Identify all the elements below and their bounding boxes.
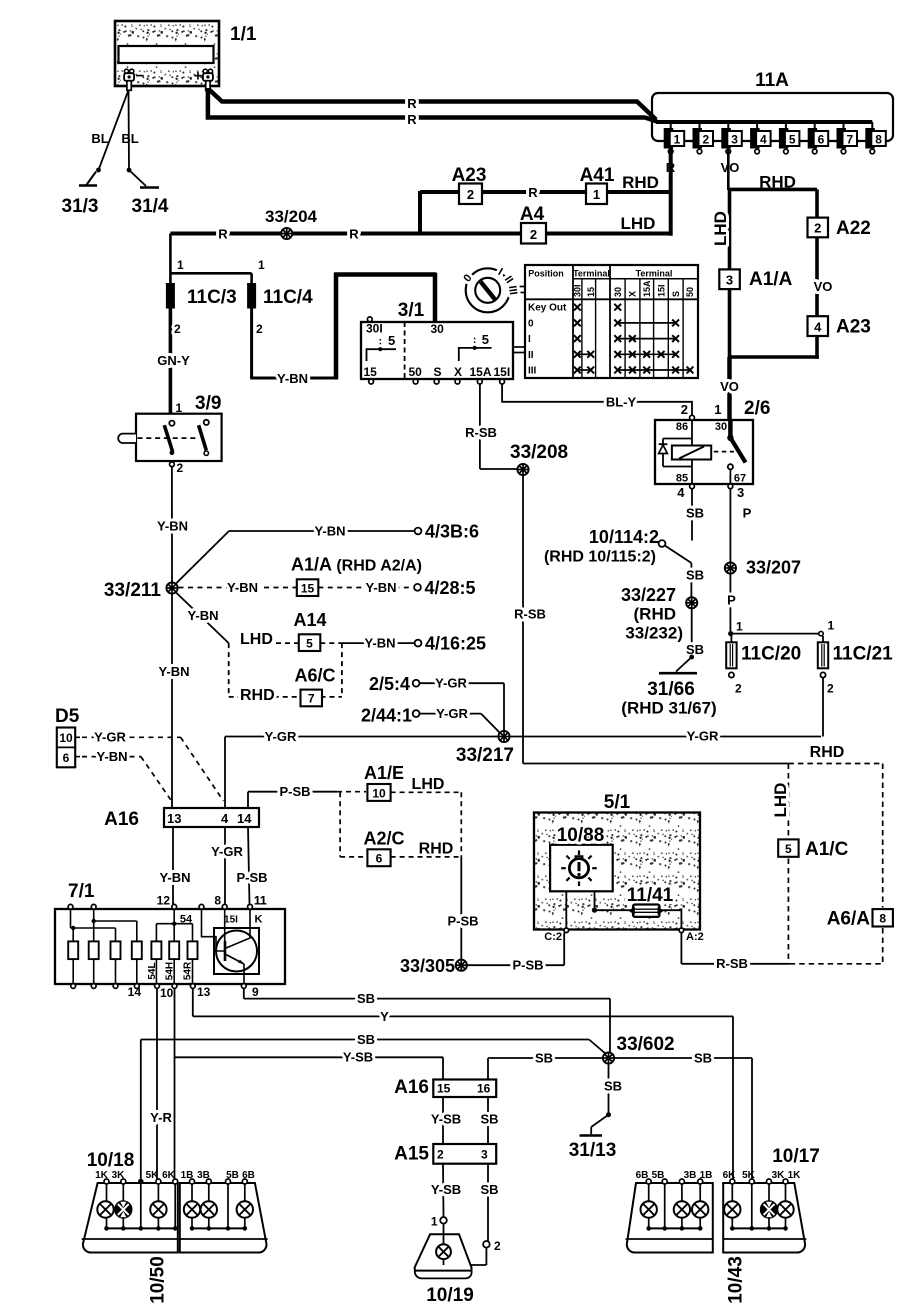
svg-text:4: 4 — [814, 320, 822, 335]
svg-text:Y-BN: Y-BN — [159, 870, 190, 885]
svg-text:A41: A41 — [580, 165, 615, 186]
svg-text:10/50: 10/50 — [148, 1256, 169, 1304]
svg-text:3/9: 3/9 — [195, 393, 221, 414]
svg-text:15I: 15I — [656, 284, 666, 297]
svg-text:10/88: 10/88 — [557, 825, 605, 846]
svg-text:SB: SB — [686, 506, 704, 521]
svg-text:Y-GR: Y-GR — [687, 729, 719, 744]
svg-text:A1/E: A1/E — [364, 763, 404, 783]
svg-text:2: 2 — [827, 682, 834, 696]
svg-text:SB: SB — [357, 991, 375, 1006]
svg-text:6K: 6K — [723, 1170, 737, 1181]
svg-text:11: 11 — [254, 894, 267, 908]
svg-text:S: S — [434, 365, 442, 379]
svg-text:8: 8 — [879, 912, 886, 926]
svg-text:Y-BN: Y-BN — [314, 524, 345, 539]
svg-text:3: 3 — [731, 133, 738, 147]
svg-text:SB: SB — [604, 1079, 622, 1094]
svg-text:3: 3 — [726, 273, 733, 288]
svg-text:15I: 15I — [224, 915, 238, 926]
svg-text:30: 30 — [613, 287, 623, 297]
svg-text:5: 5 — [785, 842, 792, 856]
svg-text:6: 6 — [63, 751, 70, 765]
svg-text:Y-GR: Y-GR — [436, 706, 468, 721]
svg-text:31/4: 31/4 — [132, 196, 169, 217]
svg-text:R-SB: R-SB — [716, 956, 748, 971]
svg-text:R-SB: R-SB — [514, 607, 546, 622]
svg-text:BL-Y: BL-Y — [606, 394, 637, 409]
svg-text:31/66: 31/66 — [647, 679, 695, 700]
svg-text:10: 10 — [160, 986, 174, 1000]
svg-text:Y-GR: Y-GR — [94, 730, 126, 745]
svg-text:A16: A16 — [394, 1077, 429, 1098]
svg-text:1/1: 1/1 — [230, 24, 257, 45]
svg-text:3: 3 — [737, 485, 744, 500]
svg-text:R: R — [528, 185, 538, 200]
svg-text:9: 9 — [252, 985, 259, 999]
svg-text:15A: 15A — [470, 365, 492, 379]
svg-text:1: 1 — [736, 620, 743, 634]
svg-text:Y-SB: Y-SB — [343, 1050, 373, 1065]
svg-text:8: 8 — [875, 133, 882, 147]
svg-text:RHD: RHD — [622, 173, 659, 192]
svg-text:1B: 1B — [181, 1170, 194, 1181]
svg-text:R: R — [407, 96, 417, 111]
svg-text:1: 1 — [177, 258, 184, 272]
svg-text:15: 15 — [437, 1082, 451, 1096]
svg-text:A22: A22 — [836, 218, 871, 239]
svg-text:11C/21: 11C/21 — [833, 644, 894, 665]
svg-text:A16: A16 — [104, 809, 139, 830]
svg-text:Y-BN: Y-BN — [187, 608, 218, 623]
svg-text:14: 14 — [237, 811, 252, 826]
svg-text:14: 14 — [128, 985, 142, 999]
svg-text:BL: BL — [91, 131, 108, 146]
svg-text:Position: Position — [528, 269, 564, 279]
svg-text:2: 2 — [174, 322, 181, 336]
svg-text:Y-GR: Y-GR — [435, 676, 467, 691]
svg-text:(RHD 31/67): (RHD 31/67) — [621, 699, 716, 718]
svg-text:5B: 5B — [226, 1170, 239, 1181]
svg-text:D5: D5 — [55, 706, 80, 727]
svg-text:2/5:4: 2/5:4 — [369, 674, 410, 694]
svg-text:11A: 11A — [755, 70, 789, 91]
svg-text:Y-GR: Y-GR — [265, 729, 297, 744]
svg-text:10/19: 10/19 — [426, 1285, 474, 1306]
svg-text:3B: 3B — [197, 1170, 210, 1181]
svg-text:−: − — [136, 68, 145, 85]
svg-text:III: III — [528, 366, 537, 377]
svg-text:A1/C: A1/C — [805, 839, 849, 860]
svg-text:1: 1 — [828, 619, 835, 633]
svg-text:GN-Y: GN-Y — [157, 353, 190, 368]
svg-text:A23: A23 — [452, 165, 487, 186]
svg-text:3K: 3K — [772, 1170, 786, 1181]
svg-text:54L: 54L — [147, 962, 158, 979]
svg-text:VO: VO — [720, 379, 739, 394]
svg-text:SB: SB — [686, 642, 704, 657]
svg-text:SB: SB — [694, 1051, 712, 1066]
svg-text:15: 15 — [364, 365, 378, 379]
svg-text:A1/A (RHD A2/A): A1/A (RHD A2/A) — [291, 555, 422, 575]
svg-text:C:2: C:2 — [544, 931, 562, 943]
svg-text:Terminal: Terminal — [573, 269, 610, 279]
svg-text:VO: VO — [721, 160, 740, 175]
svg-text:50: 50 — [409, 365, 423, 379]
svg-text:15A: 15A — [642, 280, 652, 297]
svg-text:(RHD 10/115:2): (RHD 10/115:2) — [544, 549, 656, 566]
svg-text:BL: BL — [121, 131, 138, 146]
svg-text:13: 13 — [197, 985, 211, 999]
svg-text:SB: SB — [480, 1182, 498, 1197]
svg-text:6K: 6K — [162, 1170, 176, 1181]
svg-text:10/43: 10/43 — [726, 1256, 747, 1304]
svg-text:(RHD: (RHD — [634, 605, 677, 624]
svg-text:Y-BN: Y-BN — [158, 664, 189, 679]
svg-text:4: 4 — [760, 133, 767, 147]
svg-text:10: 10 — [59, 731, 73, 745]
svg-text:VO: VO — [814, 279, 833, 294]
svg-text:54H: 54H — [165, 962, 176, 980]
svg-text:15I: 15I — [494, 365, 511, 379]
svg-text:2: 2 — [494, 1239, 501, 1253]
svg-text:7/1: 7/1 — [68, 881, 95, 902]
svg-text:15: 15 — [301, 581, 315, 595]
svg-text:5: 5 — [789, 133, 796, 147]
svg-text:30I: 30I — [573, 284, 583, 297]
svg-text:6: 6 — [376, 852, 383, 866]
svg-text:4: 4 — [221, 811, 229, 826]
svg-text:33/217: 33/217 — [456, 745, 514, 766]
svg-text:A6/A: A6/A — [827, 909, 871, 930]
svg-text:30: 30 — [715, 421, 727, 433]
svg-text:2: 2 — [681, 402, 688, 417]
svg-text:Y-SB: Y-SB — [431, 1112, 461, 1127]
svg-text:P: P — [727, 593, 736, 608]
svg-text:P-SB: P-SB — [279, 784, 310, 799]
svg-text:33/305: 33/305 — [400, 956, 455, 976]
svg-text:30: 30 — [431, 322, 445, 336]
svg-text:LHD: LHD — [771, 783, 790, 818]
svg-text:31/3: 31/3 — [62, 196, 99, 217]
svg-text:5K: 5K — [146, 1170, 160, 1181]
svg-text:I: I — [528, 334, 531, 345]
svg-text:15: 15 — [586, 287, 596, 297]
svg-text:86: 86 — [676, 421, 688, 433]
svg-text:11C/4: 11C/4 — [263, 287, 313, 308]
svg-text:A14: A14 — [293, 610, 326, 630]
svg-text:Y-R: Y-R — [150, 1110, 172, 1125]
svg-text:2/6: 2/6 — [744, 398, 770, 419]
svg-text:1: 1 — [674, 133, 681, 147]
svg-text:4/16:25: 4/16:25 — [425, 634, 486, 654]
svg-text:+: + — [194, 68, 203, 85]
svg-text:R: R — [218, 227, 228, 242]
svg-text:1: 1 — [593, 187, 600, 202]
svg-text:A2/C: A2/C — [363, 829, 404, 849]
svg-text:1B: 1B — [700, 1170, 713, 1181]
svg-text:Y-BN: Y-BN — [365, 580, 396, 595]
svg-text:1: 1 — [176, 401, 183, 415]
svg-text:3/1: 3/1 — [398, 300, 425, 321]
svg-text:LHD: LHD — [621, 214, 656, 233]
svg-text:13: 13 — [167, 811, 181, 826]
svg-text:Y-BN: Y-BN — [96, 749, 127, 764]
svg-text:5: 5 — [482, 332, 489, 347]
svg-text:3B: 3B — [684, 1170, 697, 1181]
svg-text:RHD: RHD — [240, 687, 275, 704]
svg-text:11C/3: 11C/3 — [187, 287, 237, 308]
svg-text:10: 10 — [372, 786, 386, 800]
svg-text:Y-BN: Y-BN — [227, 580, 258, 595]
svg-text:K: K — [255, 914, 263, 926]
svg-text:2: 2 — [702, 133, 709, 147]
svg-text:4/28:5: 4/28:5 — [425, 578, 476, 598]
svg-text:67: 67 — [734, 473, 746, 485]
svg-text:12: 12 — [157, 894, 171, 908]
svg-text:6B: 6B — [636, 1170, 649, 1181]
svg-text:33/227: 33/227 — [621, 585, 676, 605]
svg-text:5K: 5K — [742, 1170, 756, 1181]
svg-text:R-SB: R-SB — [465, 425, 497, 440]
svg-text:31/13: 31/13 — [569, 1140, 617, 1161]
svg-text:4: 4 — [677, 485, 685, 500]
svg-text:SB: SB — [686, 568, 704, 583]
svg-text:2: 2 — [177, 461, 184, 475]
svg-text:7: 7 — [308, 692, 315, 706]
svg-text:6B: 6B — [242, 1170, 255, 1181]
svg-text:1: 1 — [714, 402, 721, 417]
svg-text:7: 7 — [846, 133, 853, 147]
svg-text:Y-BN: Y-BN — [157, 519, 188, 534]
svg-text:A6/C: A6/C — [294, 666, 335, 686]
svg-text:16: 16 — [477, 1082, 491, 1096]
svg-text:1K: 1K — [788, 1170, 802, 1181]
svg-text:5B: 5B — [652, 1170, 665, 1181]
svg-text:LHD: LHD — [240, 631, 273, 648]
svg-text:P-SB: P-SB — [447, 914, 478, 929]
svg-text:2: 2 — [437, 1148, 444, 1162]
svg-text:2: 2 — [467, 187, 474, 202]
svg-text:10/114:2: 10/114:2 — [589, 527, 659, 547]
svg-text:A1/A: A1/A — [749, 269, 793, 290]
svg-text:33/204: 33/204 — [265, 207, 318, 226]
svg-text:A4: A4 — [520, 204, 545, 225]
svg-text:P: P — [743, 506, 752, 521]
svg-text:11/41: 11/41 — [627, 885, 674, 906]
svg-text:33/207: 33/207 — [746, 558, 801, 578]
svg-text:1: 1 — [258, 258, 265, 272]
svg-text:1: 1 — [431, 1215, 438, 1229]
svg-text:R: R — [349, 227, 359, 242]
svg-text:RHD: RHD — [419, 841, 454, 858]
svg-text:85: 85 — [676, 473, 688, 485]
svg-text:Terminal: Terminal — [636, 269, 673, 279]
svg-text:2: 2 — [814, 221, 821, 236]
svg-text:A23: A23 — [836, 317, 871, 338]
svg-text:S: S — [671, 291, 681, 297]
svg-text:2: 2 — [256, 322, 263, 336]
svg-text:10/17: 10/17 — [772, 1146, 820, 1167]
svg-text:3K: 3K — [112, 1170, 126, 1181]
svg-text:54R: 54R — [182, 961, 193, 980]
svg-text:A15: A15 — [394, 1144, 429, 1165]
svg-text:2: 2 — [735, 682, 742, 696]
svg-text:Y-GR: Y-GR — [211, 844, 243, 859]
svg-text:LHD: LHD — [711, 211, 730, 246]
svg-text:30I: 30I — [366, 322, 383, 336]
svg-text:2: 2 — [530, 227, 537, 242]
svg-text:X: X — [454, 365, 462, 379]
svg-text:III: III — [506, 285, 519, 296]
svg-text:33/602: 33/602 — [617, 1034, 675, 1055]
svg-text:Key Out: Key Out — [528, 303, 567, 314]
svg-text:10/18: 10/18 — [87, 1150, 135, 1171]
svg-text:II: II — [528, 350, 534, 361]
svg-text:6: 6 — [818, 133, 825, 147]
svg-text:8: 8 — [214, 894, 221, 908]
svg-text:R: R — [407, 112, 417, 127]
svg-text:2/44:1: 2/44:1 — [361, 706, 412, 726]
svg-text:33/232): 33/232) — [625, 624, 683, 643]
svg-text:RHD: RHD — [810, 744, 845, 761]
svg-text:P-SB: P-SB — [512, 958, 543, 973]
svg-text:11C/20: 11C/20 — [741, 644, 801, 665]
svg-text:X: X — [628, 291, 638, 297]
svg-text:Y-BN: Y-BN — [364, 636, 395, 651]
svg-text:Y: Y — [380, 1009, 389, 1024]
svg-text:0: 0 — [528, 318, 534, 329]
svg-text:A:2: A:2 — [686, 931, 704, 943]
svg-text:SB: SB — [480, 1112, 498, 1127]
svg-text:P-SB: P-SB — [236, 870, 267, 885]
svg-text:5: 5 — [306, 636, 313, 650]
svg-text:1K: 1K — [95, 1170, 109, 1181]
svg-text:33/208: 33/208 — [510, 442, 568, 463]
svg-text:Y-BN: Y-BN — [277, 371, 308, 386]
svg-text:Y-SB: Y-SB — [431, 1182, 461, 1197]
svg-text:4/3B:6: 4/3B:6 — [425, 522, 479, 542]
svg-text:3: 3 — [481, 1148, 488, 1162]
svg-text:50: 50 — [685, 287, 695, 297]
svg-text:33/211: 33/211 — [104, 580, 161, 601]
svg-text:LHD: LHD — [412, 776, 445, 793]
svg-text:SB: SB — [535, 1051, 553, 1066]
svg-text:SB: SB — [357, 1032, 375, 1047]
svg-text:5: 5 — [388, 333, 395, 348]
svg-text:5/1: 5/1 — [604, 792, 631, 813]
